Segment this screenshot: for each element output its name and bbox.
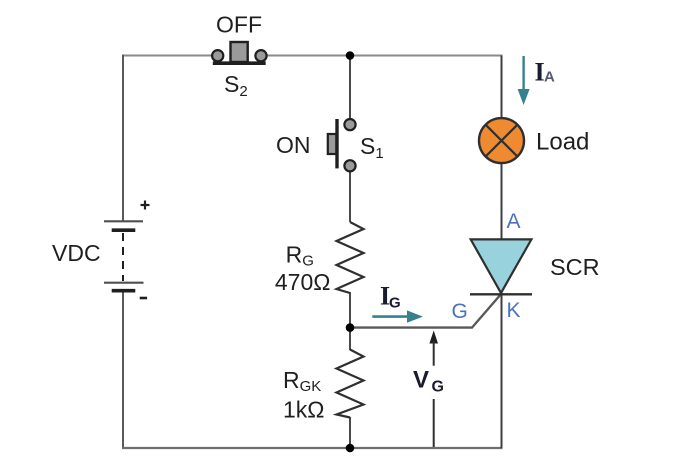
svg-text:A: A [507,210,521,233]
svg-text:ON: ON [276,132,311,158]
svg-text:Load: Load [536,129,589,156]
svg-text:SCR: SCR [550,254,600,280]
svg-text:OFF: OFF [216,12,262,38]
svg-text:VDC: VDC [52,240,101,266]
svg-text:470Ω: 470Ω [275,269,331,295]
svg-text:1kΩ: 1kΩ [283,397,325,423]
svg-text:K: K [507,299,521,322]
svg-text:G: G [389,295,401,312]
svg-text:G: G [452,300,468,323]
svg-text:G: G [432,379,444,396]
svg-text:A: A [544,69,555,86]
svg-text:V: V [413,367,429,394]
